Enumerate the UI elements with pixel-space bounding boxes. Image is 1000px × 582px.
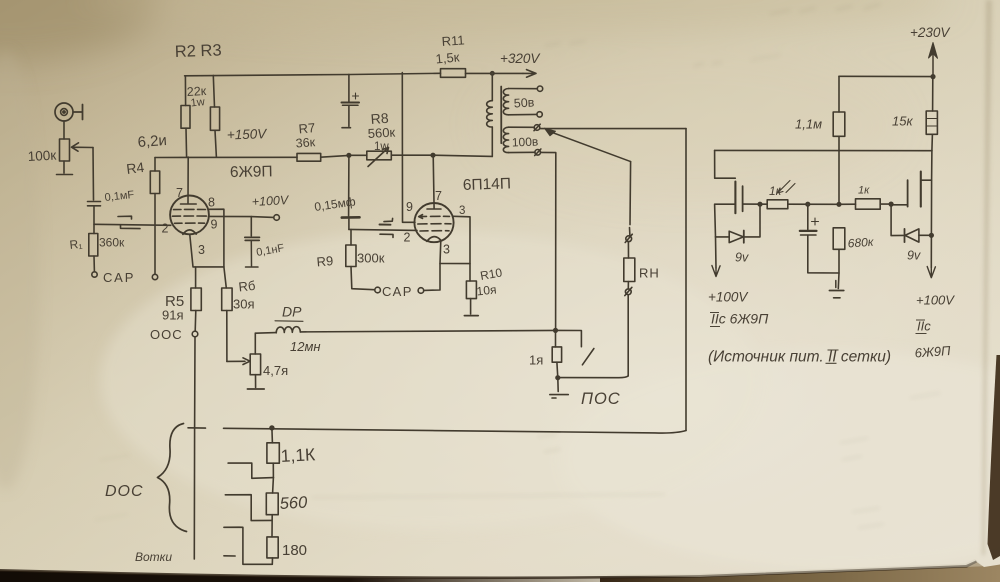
tube V2 top bar and anode lead [427,155,441,209]
svg-text:36к: 36к [295,135,316,150]
junction cathode V2 [440,263,470,265]
arrow mark on 1k left [778,181,796,194]
tap 3 [224,527,272,564]
svg-text:3: 3 [459,205,465,217]
pin8 wire V1 [208,209,224,267]
zener 9v left [716,204,761,243]
svg-text:+100V: +100V [916,293,955,308]
svg-text:1,5к: 1,5к [435,49,460,66]
svg-text:100к: 100к [27,148,56,164]
svg-text:R₁: R₁ [69,237,83,252]
svg-text:САР: САР [103,270,135,285]
svg-text:R7: R7 [298,120,316,136]
resistor R5 91 [191,267,201,331]
svg-text:RН: RН [639,266,660,281]
wire grid V1 [94,224,171,225]
svg-text:4,7я: 4,7я [263,363,288,378]
junction dot +320V [491,72,494,75]
resistor 560 [266,478,278,537]
resistor R3 [210,75,219,157]
choke DP 12mH [255,321,303,333]
svg-text:+320V: +320V [500,51,541,66]
terminal +100V [274,215,280,221]
arrow +320V [523,70,536,78]
terminal 100v top slashed [534,124,540,131]
tube V2 6P14P envelope [414,203,453,242]
big box right side [685,129,687,431]
underline IIc left [710,313,720,327]
wire R8 to transformer [433,155,492,156]
slashed terminal RH bottom [625,282,632,376]
svg-text:560к: 560к [367,125,395,141]
wire choke to POS junction [300,330,555,332]
right PSU subcircuit [712,43,938,298]
junction dot elec cap [806,202,810,206]
svg-text:Rб: Rб [238,278,256,295]
svg-text:1w: 1w [190,96,205,109]
tube V1 grids [173,209,207,223]
long OOC feedback line [193,337,196,559]
svg-text:R9: R9 [316,253,334,269]
svg-text:9: 9 [406,200,413,214]
svg-text:DOC: DOC [105,483,144,500]
junction dot R8 left [347,154,351,158]
grid marks V1 [118,216,140,228]
arrow R6 to 4.7 [227,358,250,365]
cathode wire V2 to CAP2 [424,241,441,291]
cathode lead V1 [190,235,224,267]
electrolytic cap PSU [800,204,839,273]
left drop wire [715,150,736,178]
electrolytic cap top [342,74,360,127]
wire 100v bottom to POS junction [541,152,556,330]
svg-text:1к: 1к [858,185,870,197]
svg-text:1к: 1к [769,184,783,198]
tap selector arrow [547,131,631,162]
svg-text:680к: 680к [847,235,875,251]
svg-text:3: 3 [443,243,450,257]
wire jack to pot [63,121,65,139]
svg-text:6Ж9П: 6Ж9П [914,343,951,361]
junction dot right zener [930,234,934,238]
zener 9v right [891,204,931,242]
top rail +320V [185,73,523,76]
svg-text:100в: 100в [512,135,539,150]
transformer primary lead [487,73,493,156]
tube V1 6Zh9P envelope [170,196,209,235]
anode lead V1 [181,157,197,204]
wire R4 to terminal [154,194,156,275]
resistor R1 [89,224,98,271]
ground below R10 [464,315,478,317]
svg-text:ПОС: ПОС [581,390,621,408]
junction dot R8 right [431,153,435,157]
tube V2 grids [418,215,451,231]
ground below 4.7 [247,388,264,390]
svg-text:2: 2 [404,231,411,245]
tap 1 [228,463,273,478]
resistor R6 30 [222,267,232,362]
svg-text:91я: 91я [162,308,184,323]
junction dot 230 [931,75,935,79]
pin3 wire V2 to R10 [454,216,470,281]
left cap to 1k wire [743,203,767,205]
svg-text:+100V: +100V [251,193,290,209]
potentiometer 100k [60,139,94,161]
tap minus dash [224,555,235,557]
svg-text:6,2и: 6,2и [137,132,167,151]
PSU rail [715,149,932,151]
svg-text:180: 180 [282,542,307,559]
resistor R4 [150,158,159,194]
svg-text:+100V: +100V [708,290,749,305]
svg-text:10я: 10я [476,282,497,298]
resistor 1k right [839,199,891,209]
ground PSU [829,291,843,298]
faint ghost marks [95,4,940,528]
secondary 100v winding [503,127,535,152]
terminal OOC [192,331,198,337]
underline IIc right [916,320,927,334]
potentiometer R8 560k 1w [349,148,433,167]
right cap plate b [920,172,922,207]
terminal 50v bottom [537,112,542,117]
svg-text:360к: 360к [99,236,125,250]
resistor 1.1K [267,428,279,478]
svg-text:7: 7 [176,186,183,200]
switch POS [556,330,594,364]
wire pot wiper down to C-in [92,148,95,201]
resistor 180 [267,537,278,564]
ground symbol middle text area [835,281,837,288]
svg-text:9v: 9v [907,249,921,263]
top feed wire [839,75,933,77]
resistor 1R [552,330,561,377]
resistor R9 300k [346,230,374,290]
svg-text:6Ж9П: 6Ж9П [230,163,273,181]
serif bars for roman II and underlines [710,313,927,364]
terminal CAP2 a [375,287,381,293]
curly brace OOC [158,424,187,532]
tube V2 cathode arc [427,237,441,242]
svg-text:8: 8 [208,196,215,210]
terminal 50v top [537,86,542,91]
ground POS [550,378,569,398]
slashed terminal RH top [625,228,632,259]
pin9 wire V1 to +100V terminal [209,216,274,217]
wire RH bottom to 1R junction [558,376,628,378]
resistor 1.1M [833,76,845,204]
+100V arrow right [930,235,932,268]
svg-text:Вотки: Вотки [135,550,172,564]
+230V arrow [932,54,934,77]
OOC bottom junction dot [270,426,274,430]
junction dot 1R bottom [556,376,560,380]
center junction dot [837,203,841,207]
svg-text:1я: 1я [529,353,543,368]
junction dot left 1k [758,202,762,206]
+100V arrow left [715,237,718,268]
capacitor 0.15uF [342,155,360,229]
svg-text:(Источник пит. II сетки): (Источник пит. II сетки) [708,349,891,366]
svg-text:30я: 30я [233,297,255,312]
left cap plate a [734,182,736,214]
resistor 680k [833,228,845,289]
svg-text:1,1м: 1,1м [795,117,822,132]
resistor R2 22k 1w [181,76,190,157]
left cap lower lead [715,204,736,237]
svg-text:50в: 50в [513,95,535,110]
svg-text:9v: 9v [735,251,749,265]
svg-text:560: 560 [279,494,308,513]
svg-text:7: 7 [435,189,442,203]
junction dot POS [554,329,558,333]
right main drop [930,151,933,236]
grid marks V2 [380,218,394,237]
wire 100v top to big box right side [540,128,686,130]
terminal CAP left b [152,274,157,279]
svg-text:+230V: +230V [910,25,951,40]
svg-text:1w: 1w [374,141,389,153]
svg-text:2: 2 [162,222,169,236]
svg-text:R4: R4 [125,159,145,177]
wire arrow to RH [629,162,632,225]
tube V1 cathode arc [183,230,196,234]
junction dot right 1k [889,202,893,206]
big box bottom line [224,428,687,433]
right cap plate a [907,180,909,206]
transformer core [500,87,502,144]
resistor 4.7 [250,333,260,387]
terminal CAP2 b [418,288,424,294]
resistor R10 10 [466,281,476,314]
right cap leads [891,180,931,205]
terminal 100v bottom slashed [535,149,541,156]
input jack J1 [55,103,83,121]
svg-text:R11: R11 [441,32,465,49]
svg-text:15к: 15к [892,114,913,129]
resistor 1k left [767,200,839,209]
resistor R11 1.5k [441,69,466,78]
svg-text:R2 R3: R2 R3 [175,41,222,61]
svg-text:IIс: IIс [917,319,931,334]
svg-text:6П14П: 6П14П [463,175,512,194]
svg-text:IIс 6Ж9П: IIс 6Ж9П [711,311,769,327]
svg-text:12мн: 12мн [290,339,321,354]
+150V bus [155,156,297,158]
ground below pot [57,161,73,175]
tap 2 [225,495,272,521]
capacitor 0.1uF input [88,202,101,224]
wire to V2 grid [349,229,417,230]
OOC line crossing tick [188,427,206,429]
pin9 drop wire V2 [402,73,415,223]
svg-text:9: 9 [211,218,218,232]
svg-text:ООС: ООС [150,327,183,342]
resistor RH [624,258,635,282]
left cap plate b [742,186,744,211]
resistor 15k [926,77,937,151]
svg-text:САР: САР [382,284,413,299]
resistor R7 36k [297,153,349,161]
secondary 50v winding [503,89,537,115]
svg-text:1,1К: 1,1К [280,444,316,466]
paper bottom edge and table [0,0,1,1]
capacitor 0.1nF [245,217,260,267]
svg-text:3: 3 [198,243,205,257]
svg-text:+150V: +150V [227,126,269,142]
svg-text:DP: DP [282,304,302,320]
terminal CAP left a [92,272,97,277]
svg-text:300к: 300к [357,251,385,266]
